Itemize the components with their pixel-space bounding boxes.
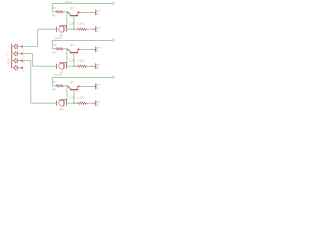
capacitor C3 <box>12 59 22 63</box>
svg-text:+: + <box>15 64 17 67</box>
wire rail to resistor R5 <box>52 85 55 87</box>
svg-text:LEDS: LEDS <box>6 58 10 65</box>
svg-text:+: + <box>15 43 17 46</box>
wire resistor to pin sub channel 3 <box>88 102 92 104</box>
svg-text:1,2M: 1,2M <box>69 59 76 63</box>
resistor R2 1.2M <box>76 28 78 30</box>
capacitor C4 <box>12 66 22 70</box>
svg-text:3: 3 <box>23 62 25 66</box>
wire transistor to pin channel 2 <box>82 48 92 50</box>
svg-text:2: 2 <box>23 55 25 59</box>
resistor R4 1.2M <box>76 65 78 67</box>
wire rail to resistor R1 <box>52 11 55 13</box>
wire VCC rail net channel 1 <box>52 4 112 12</box>
wire resistor to node channel 3 <box>63 85 67 87</box>
wire mic to sub node channel 3 <box>67 102 76 104</box>
wire transistor to pin channel 1 <box>82 11 92 13</box>
wire C2 to mic channel 2 <box>23 54 56 67</box>
microphone MIC3 <box>57 100 67 107</box>
svg-text:R?: R? <box>53 43 57 47</box>
svg-text:4k7: 4k7 <box>52 13 57 17</box>
microphone MIC1 <box>57 26 67 33</box>
wire resistor to pin sub channel 2 <box>88 65 92 67</box>
svg-text:+: + <box>15 50 17 53</box>
svg-text:1,2M: 1,2M <box>69 96 76 100</box>
wire node to mic top channel 3 <box>66 86 68 99</box>
wire base to sub node channel 1 <box>73 16 75 29</box>
wire C1 to mic channel 1 <box>23 29 56 46</box>
junction sub node channel 3 <box>73 102 75 104</box>
svg-text:R?: R? <box>53 80 57 84</box>
pin circle C1 <box>21 46 23 48</box>
wire VCC rail net channel 2 <box>52 41 112 49</box>
pin circle C3 <box>21 60 23 62</box>
wire resistor to node channel 1 <box>63 11 67 13</box>
svg-text:0,15U: 0,15U <box>77 22 84 26</box>
svg-text:4k7: 4k7 <box>52 87 57 91</box>
resistor R5 4k7 <box>56 85 63 88</box>
junction node channel 3 <box>66 85 68 87</box>
pin JP1A output <box>92 10 96 15</box>
svg-text:1: 1 <box>23 48 25 52</box>
pin circle C2 <box>21 53 23 55</box>
pin circle C4 <box>21 67 23 69</box>
svg-text:R?: R? <box>53 6 57 10</box>
transistor Q2 <box>68 49 82 53</box>
transistor Q3 <box>68 86 82 90</box>
capacitor C1 <box>12 44 22 48</box>
resistor R1 4k7 <box>56 11 63 14</box>
svg-text:Q?: Q? <box>70 6 74 10</box>
wire base to sub node channel 3 <box>73 90 75 103</box>
svg-text:4k7: 4k7 <box>52 50 57 54</box>
wire C3 to mic channel 3 <box>23 61 56 103</box>
svg-text:VCC2: VCC2 <box>55 36 63 40</box>
wire base to sub node channel 2 <box>73 53 75 66</box>
svg-text:Q?: Q? <box>70 43 74 47</box>
resistor R6 1.2M <box>76 102 78 104</box>
wire resistor to node channel 2 <box>63 48 67 50</box>
supply node circle channel 1 <box>112 2 114 4</box>
svg-text:0,15U: 0,15U <box>77 96 84 100</box>
svg-text:M?: M? <box>60 108 64 112</box>
wire transistor to pin channel 3 <box>82 85 92 87</box>
junction sub node channel 2 <box>73 65 75 67</box>
junction node channel 2 <box>66 48 68 50</box>
capacitor C2 <box>12 51 22 55</box>
svg-text:1,2M: 1,2M <box>69 22 76 26</box>
junction sub node channel 1 <box>73 28 75 30</box>
wire VCC rail net channel 3 <box>52 78 112 86</box>
svg-text:0,15U: 0,15U <box>77 59 84 63</box>
svg-text:VCC1: VCC1 <box>65 0 73 4</box>
svg-text:1: 1 <box>7 53 9 55</box>
pin JP3B output <box>92 101 96 106</box>
supply node circle channel 3 <box>112 76 114 78</box>
pin JP3A output <box>92 84 96 89</box>
microphone MIC2 <box>57 63 67 69</box>
wire rail to resistor R3 <box>52 48 55 50</box>
pin JP1B output <box>92 27 96 32</box>
connector J1 bus <box>11 44 13 68</box>
wire mic to sub node channel 2 <box>67 65 76 67</box>
svg-text:+: + <box>15 57 17 60</box>
wire node to mic top channel 1 <box>66 12 68 25</box>
resistor R3 4k7 <box>56 48 63 51</box>
transistor Q1 <box>68 12 82 16</box>
supply node circle channel 2 <box>112 39 114 41</box>
junction node channel 1 <box>66 11 68 13</box>
wire node to mic top channel 2 <box>66 49 68 62</box>
svg-text:Q?: Q? <box>70 80 74 84</box>
pin JP2B output <box>92 64 96 69</box>
svg-text:4: 4 <box>23 69 25 73</box>
wire resistor to pin sub channel 1 <box>88 28 92 30</box>
svg-text:VCC3: VCC3 <box>55 73 63 77</box>
pin JP2A output <box>92 47 96 52</box>
wire mic to sub node channel 1 <box>67 28 76 30</box>
